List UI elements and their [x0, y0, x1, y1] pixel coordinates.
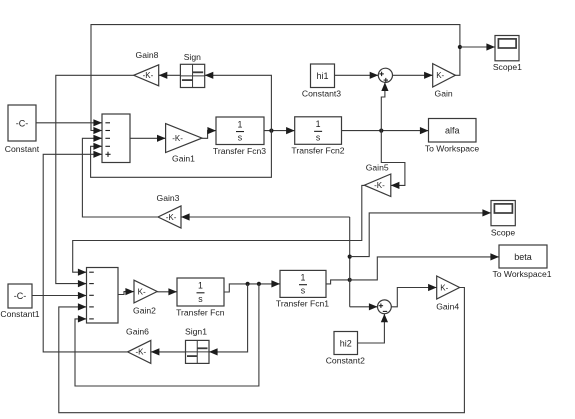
wire spine vertical	[349, 217, 351, 307]
svg-text:Transfer Fcn: Transfer Fcn	[176, 307, 225, 317]
wire Sign to Gain8	[159, 72, 181, 79]
svg-text:Gain3: Gain3	[157, 193, 180, 203]
gain block Gain8 (-K-)	[134, 65, 159, 86]
wire branch down-around to Sum2 in5	[75, 284, 259, 386]
wire branch up to Sum circle bottom	[381, 82, 388, 130]
scope block Scope1	[495, 36, 519, 61]
svg-text:K-: K-	[138, 287, 146, 296]
wire hi1 to Sum circle	[335, 72, 379, 79]
wire Constant1 to Sum2 in3	[32, 292, 87, 299]
transfer function block Transfer Fcn (1/s)	[177, 278, 224, 306]
label Sign	[184, 52, 201, 62]
svg-text:hi2: hi2	[340, 338, 352, 348]
label Gain1	[172, 154, 195, 164]
gain block Gain (K-)	[433, 64, 456, 87]
wire Sum circle to Gain	[393, 72, 433, 79]
wire Sign1 to Gain6	[151, 348, 186, 355]
svg-text:Transfer Fcn3: Transfer Fcn3	[213, 146, 266, 156]
wire Transfer Fcn2 to alfa	[342, 127, 429, 134]
junction node spine at Transfer Fcn1 out	[348, 278, 352, 282]
constant block Constant (-C-)	[8, 105, 36, 141]
svg-text:Sign: Sign	[184, 52, 201, 62]
wire Gain8 down to Sum2 in2	[56, 75, 134, 287]
label Scope1	[493, 62, 522, 72]
label Gain4	[436, 301, 459, 311]
transfer function block Transfer Fcn1 (1/s)	[280, 270, 326, 297]
wire Transfer Fcn to Transfer Fcn1	[224, 280, 280, 292]
label Gain	[435, 88, 453, 98]
wire Sum circle 2 to Gain4	[391, 284, 436, 307]
svg-text:-K-: -K-	[143, 71, 154, 80]
transfer function block Transfer Fcn3 (1/s)	[216, 117, 264, 145]
sign block Sign1	[186, 340, 210, 363]
wire Transfer Fcn1 out to spine	[326, 280, 350, 284]
svg-text:Constant1: Constant1	[0, 309, 39, 319]
sum junction circle Sum1 (+ -)	[378, 300, 392, 314]
wire Gain up over top to Sum1 in2	[91, 25, 460, 135]
svg-text:Scope: Scope	[491, 227, 516, 237]
svg-text:1: 1	[238, 119, 243, 129]
svg-text:-K-: -K-	[374, 181, 385, 190]
wire Gain6 up to Sum1 in5	[43, 151, 127, 352]
sum block Sum2 (signs - - - - -)	[87, 268, 119, 324]
constant block Constant2 (hi2)	[334, 332, 358, 355]
label Constant3	[302, 89, 341, 99]
constant block Constant3 (hi1)	[311, 64, 335, 88]
label Transfer Fcn2	[291, 145, 344, 155]
gain block Gain1 (-K-)	[166, 124, 202, 153]
label Gain2	[133, 306, 156, 316]
gain block Gain2 (K-)	[134, 280, 157, 303]
junction node to Sign1 branch	[246, 282, 250, 286]
label Transfer Fcn3	[213, 146, 266, 156]
svg-text:Transfer Fcn1: Transfer Fcn1	[276, 298, 329, 308]
wire Gain1 to Transfer Fcn3	[202, 127, 216, 138]
svg-text:s: s	[238, 133, 243, 143]
wire Gain4 big feedback loop to Sum2 in4	[59, 288, 465, 413]
svg-text:beta: beta	[514, 252, 532, 262]
label Sign1	[185, 327, 207, 337]
wire Gain3 up to Sum1 in3	[82, 135, 158, 217]
svg-text:Gain2: Gain2	[133, 306, 156, 316]
svg-text:Transfer Fcn2: Transfer Fcn2	[291, 145, 344, 155]
svg-text:alfa: alfa	[445, 126, 460, 136]
svg-text:K-: K-	[436, 71, 444, 80]
label Gain3	[157, 193, 180, 203]
svg-text:Gain8: Gain8	[136, 50, 159, 60]
svg-text:Gain1: Gain1	[172, 154, 195, 164]
junction node at Transfer Fcn2 output	[379, 129, 383, 133]
junction node to Sum2 in5 branch	[257, 282, 261, 286]
svg-text:hi1: hi1	[316, 71, 328, 81]
label Constant1	[0, 309, 39, 319]
constant block Constant1 (-C-)	[8, 284, 32, 308]
svg-text:Gain4: Gain4	[436, 301, 459, 311]
wire feedback Transfer Fcn3 to Sum1 in4	[91, 131, 272, 178]
wire branch down to Gain5	[381, 131, 405, 189]
wire branch to beta	[350, 253, 499, 280]
svg-text:-K-: -K-	[172, 134, 183, 143]
svg-text:Constant: Constant	[5, 144, 40, 154]
junction node at Scope1 branch	[458, 45, 462, 49]
wire branch to Scope	[350, 209, 491, 256]
label Gain8	[136, 50, 159, 60]
sum block Sum1 (signs - - - - +)	[102, 114, 130, 163]
svg-text:-C-: -C-	[16, 119, 29, 129]
sum junction circle Sum (+ +)	[378, 68, 392, 82]
svg-text:Gain5: Gain5	[366, 163, 389, 173]
svg-text:K-: K-	[440, 283, 448, 292]
svg-text:Sign1: Sign1	[185, 327, 207, 337]
svg-text:1: 1	[198, 281, 203, 291]
wire Sum1 out to Gain1	[130, 135, 166, 142]
label Gain5	[366, 163, 389, 173]
junction node spine Scope branch	[348, 255, 352, 259]
svg-text:s: s	[316, 132, 321, 142]
wire hi2 up to Sum circle 2	[358, 314, 389, 343]
gain block Gain6 (-K-)	[128, 340, 151, 363]
wire Constant to Sum1 in1	[36, 119, 102, 126]
svg-text:Constant2: Constant2	[326, 356, 365, 366]
wire Gain2 to Transfer Fcn	[157, 288, 177, 295]
svg-text:Constant3: Constant3	[302, 89, 341, 99]
wire spine top to Gain3	[181, 213, 350, 220]
label Scope	[491, 227, 516, 237]
wire spine bottom to Sum circle 2	[350, 303, 378, 310]
svg-text:To Workspace: To Workspace	[425, 143, 480, 153]
to-workspace block alfa	[429, 119, 477, 143]
label Transfer Fcn1	[276, 298, 329, 308]
svg-text:Scope1: Scope1	[493, 62, 522, 72]
svg-text:-C-: -C-	[14, 291, 27, 301]
label To Workspace	[425, 143, 480, 153]
svg-text:1: 1	[316, 119, 321, 129]
svg-text:Gain6: Gain6	[126, 327, 149, 337]
svg-text:-K-: -K-	[135, 348, 146, 357]
scope block Scope	[491, 201, 515, 226]
transfer function block Transfer Fcn2 (1/s)	[295, 117, 342, 145]
wire Sum2 out to Gain2	[118, 288, 134, 295]
label To Workspace1	[492, 269, 551, 279]
junction node at Transfer Fcn3 output	[269, 129, 273, 133]
wire Gain5 down-left to Sum2 in1	[73, 185, 365, 275]
wire branch to Scope1	[460, 43, 495, 50]
wire branch up to Sign	[205, 72, 272, 131]
svg-text:-K-: -K-	[166, 213, 177, 222]
gain block Gain5 (-K-)	[364, 174, 391, 197]
sign block Sign	[180, 64, 204, 87]
svg-text:To Workspace1: To Workspace1	[492, 269, 551, 279]
to-workspace block beta	[499, 245, 547, 268]
label Transfer Fcn	[176, 307, 225, 317]
label Constant	[5, 144, 40, 154]
gain block Gain3 (-K-)	[158, 206, 181, 228]
gain block Gain4 (K-)	[437, 276, 460, 299]
svg-text:Gain: Gain	[435, 88, 453, 98]
label Gain6	[126, 327, 149, 337]
wire Transfer Fcn3 to Transfer Fcn2	[264, 127, 295, 134]
svg-text:1: 1	[301, 273, 306, 283]
svg-text:s: s	[301, 286, 306, 296]
svg-text:s: s	[198, 294, 203, 304]
wire branch down to Sign1	[209, 284, 248, 356]
label Constant2	[326, 356, 365, 366]
